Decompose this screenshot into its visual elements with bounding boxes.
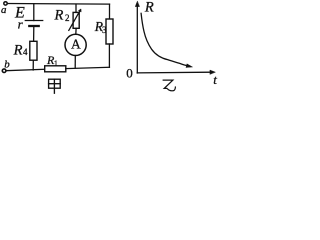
wire top	[8, 3, 110, 6]
svg-text:t: t	[213, 72, 217, 87]
svg-text:3: 3	[102, 25, 107, 35]
label yi (乙)	[163, 80, 175, 91]
rheostat R2	[73, 12, 79, 28]
svg-text:A: A	[71, 37, 81, 52]
wire R2 branch upper	[75, 4, 77, 13]
wire bottom left	[6, 69, 45, 70]
label jia (甲)	[49, 79, 61, 93]
svg-text:2: 2	[65, 13, 70, 23]
terminal a	[4, 2, 7, 5]
wire R3 to bottom	[108, 44, 110, 67]
resistor R1	[45, 66, 66, 72]
svg-text:b: b	[4, 58, 10, 70]
svg-text:1: 1	[54, 59, 58, 68]
graph curve arrowhead	[186, 64, 192, 68]
graph x-axis	[137, 71, 211, 74]
wire bottom middle	[66, 67, 110, 68]
svg-text:R: R	[144, 0, 154, 15]
terminal b	[2, 69, 6, 73]
graph y-axis	[136, 6, 138, 73]
battery E short plate	[29, 25, 38, 27]
graph curve	[141, 13, 189, 66]
svg-text:a: a	[1, 4, 7, 16]
resistor R3	[106, 19, 113, 44]
svg-text:R: R	[54, 7, 64, 23]
svg-text:4: 4	[23, 47, 28, 57]
wire battery to R4	[33, 27, 35, 41]
wire R4 to bottom	[32, 60, 34, 70]
svg-text:0: 0	[126, 66, 133, 81]
wire R3 branch upper	[109, 4, 111, 19]
ammeter A circle	[65, 34, 86, 55]
wire ammeter to bottom	[74, 56, 76, 69]
resistor R4	[30, 41, 37, 60]
wire left branch upper	[33, 4, 35, 21]
svg-text:R: R	[13, 42, 23, 58]
wire R2 to ammeter	[75, 28, 77, 34]
battery E long plate	[25, 20, 42, 22]
rheostat R2 arrow	[69, 10, 80, 30]
